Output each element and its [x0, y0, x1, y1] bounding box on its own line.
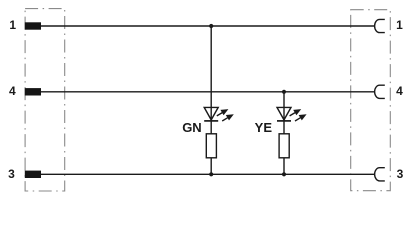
socket contact 3 (right, arc) — [375, 168, 385, 181]
pin 1 contact (left, filled) — [25, 22, 41, 29]
wire: GN branch vertical (from wire 1 down to wire 3, crosses wire 4) — [210, 26, 212, 174]
svg-text:GN: GN — [182, 120, 202, 135]
node: junction dot wire3 / YE branch — [282, 172, 286, 176]
node: junction dot wire3 / GN branch — [209, 172, 213, 176]
svg-text:4: 4 — [396, 84, 403, 98]
left connector outline (dash-dot box) — [25, 9, 65, 191]
svg-text:3: 3 — [397, 167, 404, 181]
resistor (YE branch) — [279, 134, 289, 158]
svg-text:1: 1 — [396, 18, 403, 32]
svg-text:4: 4 — [9, 84, 16, 98]
wire: YE branch vertical (from wire 4 down to wire 3) — [283, 92, 285, 175]
svg-text:YE: YE — [255, 120, 273, 135]
node: junction dot wire1 / GN branch — [209, 24, 213, 28]
wire 4 (pin4 left to pin4 right) — [41, 91, 375, 93]
right connector outline (dash-dot box) — [351, 10, 391, 191]
svg-text:1: 1 — [9, 18, 16, 32]
svg-text:3: 3 — [8, 167, 15, 181]
LED YE (diode triangle + cathode bar + emission arrows) — [277, 107, 307, 121]
LED GN (diode triangle + cathode bar + emission arrows) — [204, 107, 234, 121]
pin 4 contact (left, filled) — [25, 88, 41, 95]
resistor (GN branch) — [206, 134, 216, 158]
socket contact 4 (right, arc) — [375, 85, 385, 98]
pin 3 contact (left, filled) — [25, 171, 41, 178]
wire 1 (pin1 left to pin1 right) — [41, 25, 375, 27]
socket contact 1 (right, arc) — [375, 19, 385, 32]
wire 3 (pin3 left to pin3 right) — [41, 173, 375, 175]
node: junction dot wire4 / YE branch — [282, 90, 286, 94]
